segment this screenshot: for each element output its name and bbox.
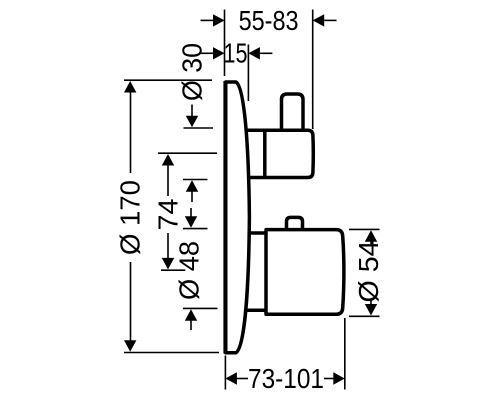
74 ext top bbox=[158, 152, 217, 154]
15 right bbox=[248, 47, 260, 59]
upper valve cartridge edge bbox=[263, 130, 267, 177]
55-83 arrow tails bbox=[201, 19, 214, 21]
dimension lines bbox=[124, 10, 380, 390]
73-101 dim line bbox=[237, 378, 249, 380]
svg-text:74: 74 bbox=[152, 199, 183, 231]
O170 up bbox=[124, 81, 136, 93]
svg-text:15: 15 bbox=[224, 38, 248, 69]
O170 down bbox=[124, 340, 136, 352]
74 dim line bbox=[167, 165, 169, 196]
escutcheon plate (drawn over necks) bbox=[226, 82, 250, 353]
upper valve body bbox=[240, 94, 313, 178]
plate left edge (wall plane, thicker) bbox=[223, 81, 227, 354]
15 left bbox=[213, 47, 225, 59]
ext line 55-83 right bbox=[312, 10, 314, 130]
svg-text:Ø 30: Ø 30 bbox=[176, 43, 207, 101]
74 up bbox=[162, 154, 174, 166]
73-101 left bbox=[225, 372, 237, 384]
O54 ext bottom bbox=[349, 315, 380, 317]
svg-text:Ø 170: Ø 170 bbox=[115, 180, 146, 255]
svg-text:73-101: 73-101 bbox=[248, 363, 324, 394]
73-101 ext left bbox=[224, 356, 226, 390]
ext line 15 right bbox=[247, 45, 249, 102]
O30 ext bottom (body top level) bbox=[184, 127, 214, 129]
O54 up bbox=[365, 230, 377, 242]
O170 dim line bbox=[130, 92, 132, 173]
svg-text:Ø 54: Ø 54 bbox=[353, 241, 384, 303]
55-83 right bbox=[313, 14, 325, 26]
O48 ext bottom bbox=[183, 307, 218, 309]
O48 down bbox=[185, 216, 197, 228]
O48 up bbox=[185, 309, 197, 321]
O30 down bbox=[186, 116, 198, 128]
svg-text:55-83: 55-83 bbox=[239, 5, 299, 36]
O30 column bbox=[191, 105, 193, 119]
O48 column bbox=[190, 208, 192, 218]
O30 up bbox=[186, 180, 198, 192]
ext line plate top (O170/O30 shared) bbox=[124, 79, 212, 81]
O30 ext2 (body bottom level) bbox=[183, 179, 208, 181]
lower handle button bbox=[287, 217, 303, 228]
upper valve stem bbox=[282, 94, 304, 130]
arrowheads bbox=[124, 14, 377, 385]
ext line wall plane (55-83 / 15 left) bbox=[224, 10, 226, 77]
O170 ext bottom bbox=[124, 352, 219, 354]
73-101 ext right bbox=[344, 318, 346, 390]
55-83 left bbox=[213, 14, 225, 26]
lower handle neck bbox=[240, 233, 266, 310]
15 arrow tails bbox=[201, 52, 214, 54]
O48 ext top bbox=[183, 228, 208, 230]
74 ext bottom bbox=[161, 269, 185, 271]
O54 ext top bbox=[349, 228, 380, 230]
74 down bbox=[162, 258, 174, 270]
svg-text:Ø 48: Ø 48 bbox=[174, 241, 205, 300]
O54 dim line bbox=[370, 241, 372, 244]
O54 down bbox=[365, 304, 377, 316]
73-101 right bbox=[333, 372, 345, 384]
lower handle body bbox=[266, 230, 344, 315]
